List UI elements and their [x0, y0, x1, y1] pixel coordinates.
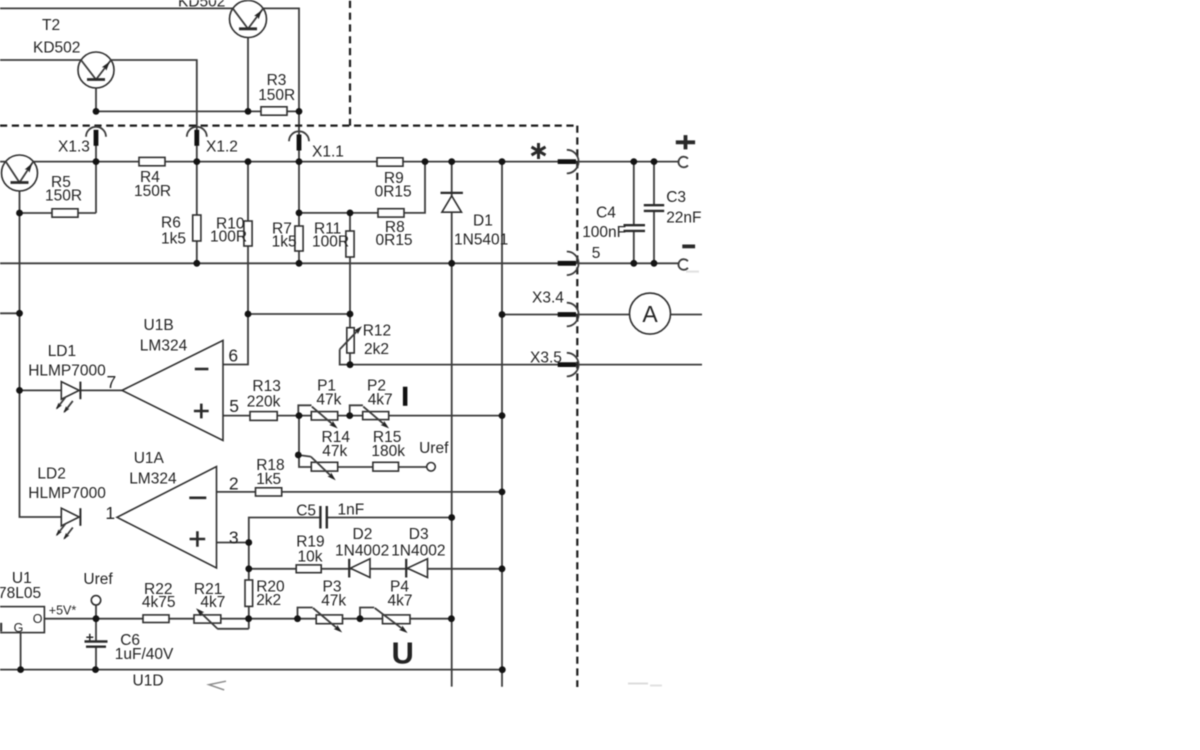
- svg-text:X3.5: X3.5: [530, 350, 562, 367]
- label LD2 value: [28, 485, 106, 502]
- wire X1.3 pin down through R5 riser: [95, 130, 97, 213]
- svg-text:4k7: 4k7: [368, 392, 393, 409]
- label R13: [252, 378, 280, 395]
- label X3.5: [530, 350, 562, 367]
- svg-text:D2: D2: [353, 526, 373, 543]
- label P2: [367, 378, 386, 395]
- wire Uref terminal drop: [95, 605, 97, 641]
- svg-text:1k5: 1k5: [161, 231, 186, 248]
- connector pin X1.3: [86, 127, 106, 146]
- resistor R3 150R: [261, 107, 287, 115]
- resistor R19 10k: [296, 565, 321, 573]
- dashed boundary vertical top: [349, 1, 351, 126]
- svg-text:78L05: 78L05: [0, 585, 41, 602]
- label R9 value: [375, 184, 412, 201]
- wire R20 branch and R21 wiper riser: [248, 569, 250, 629]
- wire ground bus bottom: [0, 669, 502, 671]
- wire C4 branch: [633, 162, 635, 264]
- svg-text:4k7: 4k7: [200, 594, 225, 611]
- svg-text:X3.4: X3.4: [532, 290, 564, 307]
- svg-text:5: 5: [592, 245, 601, 262]
- svg-text:1: 1: [105, 503, 115, 523]
- label P3: [323, 579, 342, 596]
- wire T3 collector from left edge and down to R3 right node: [0, 8, 299, 111]
- wire T2 emitter to X1.2 drop: [111, 60, 197, 162]
- resistor R5 150R: [52, 209, 78, 217]
- connector pin output 5: [558, 252, 579, 276]
- resistor R20 2k2: [245, 580, 253, 606]
- label R10 value: [210, 229, 247, 246]
- wire stub to left edge y313: [0, 312, 20, 314]
- label D3 value: [391, 543, 445, 560]
- op-amp U1B LM324: [122, 340, 223, 440]
- label R9: [384, 170, 404, 187]
- svg-text:Uref: Uref: [83, 571, 113, 588]
- label R21 value: [200, 594, 225, 611]
- label U1B value LM324: [140, 338, 188, 355]
- wire P4 wiper hook: [360, 608, 374, 619]
- label R11 value: [312, 234, 349, 251]
- label R22: [144, 581, 172, 598]
- svg-text:C4: C4: [596, 205, 616, 222]
- junction dot R12 bottom: [347, 361, 354, 368]
- label R5: [51, 174, 71, 191]
- wire R21 wiper tail: [217, 628, 249, 630]
- svg-text:LD2: LD2: [37, 466, 65, 483]
- wire P1 wiper hook: [298, 405, 311, 415]
- junction dots y416 row: [296, 412, 506, 419]
- label R7 value: [272, 234, 297, 251]
- label U1B: [144, 317, 174, 334]
- svg-text:47k: 47k: [316, 392, 341, 409]
- resistor R8 0R15: [378, 209, 404, 217]
- resistor R13 220k: [250, 412, 277, 421]
- svg-text:100R: 100R: [312, 234, 349, 251]
- capacitor C4 100nF: [624, 225, 646, 231]
- op-amp U1D apex fragment: [209, 681, 226, 690]
- svg-text:220k: 220k: [247, 393, 281, 410]
- label LD2: [37, 466, 65, 483]
- svg-text:KD502: KD502: [178, 0, 225, 10]
- label P3 value: [321, 592, 346, 609]
- trimmer R14 47k: [311, 457, 338, 483]
- label R6 value: [161, 231, 186, 248]
- label X1.3: [58, 139, 90, 156]
- wire C6 bottom lead: [95, 647, 97, 670]
- svg-text:R6: R6: [161, 215, 181, 232]
- label R15 value: [371, 443, 405, 460]
- diode D2 1N4002: [349, 559, 370, 578]
- wire LD1 to U1B output pin7: [20, 389, 123, 391]
- label R22 value: [142, 594, 176, 611]
- svg-text:4k7: 4k7: [388, 592, 413, 609]
- wire R14 R15 Uref row: [338, 466, 427, 468]
- capacitor C3 22nF: [644, 205, 664, 211]
- svg-text:4k75: 4k75: [142, 594, 176, 611]
- label R19 value: [298, 549, 323, 566]
- label R8 value: [376, 232, 413, 249]
- junction dots y569 row: [245, 565, 505, 572]
- label R6: [161, 215, 181, 232]
- wire C5 branch: [249, 518, 452, 569]
- label P1: [317, 378, 336, 395]
- label pin 7: [107, 372, 117, 392]
- LED LD1: [54, 382, 80, 415]
- wire bottom bus y263 from left edge to - terminal: [0, 262, 679, 264]
- svg-text:1N5401: 1N5401: [454, 232, 508, 249]
- wire output rail x502: [501, 162, 503, 687]
- label C5 value: [338, 501, 365, 518]
- label R3: [267, 72, 287, 89]
- svg-text:100R: 100R: [210, 229, 247, 246]
- junction dot LD1: [16, 387, 23, 394]
- svg-text:1k5: 1k5: [256, 471, 281, 488]
- wire U1A pin3 stub: [217, 542, 249, 544]
- resistor R15 180k: [373, 462, 399, 471]
- transistor T1 KD502: [2, 155, 38, 191]
- label U1: [12, 570, 32, 587]
- svg-text:1k5: 1k5: [272, 234, 297, 251]
- wire U1B pin5 R13 P1 P2 row: [223, 415, 502, 417]
- label R18 value: [256, 471, 281, 488]
- wire T2 collector from left edge: [0, 59, 81, 61]
- label D3: [409, 526, 429, 543]
- svg-text:150R: 150R: [45, 188, 82, 205]
- regulator U1 78L05 box: [0, 607, 44, 635]
- node faint artifacts: [628, 271, 699, 687]
- label R12 value: [364, 341, 389, 358]
- svg-text:U1D: U1D: [133, 673, 164, 690]
- svg-text:1nF: 1nF: [338, 501, 365, 518]
- label C3 value: [666, 209, 701, 226]
- label R5 value: [45, 188, 82, 205]
- label P4: [390, 579, 409, 596]
- resistor R10 100R: [244, 221, 252, 246]
- wire R14 wiper hook: [298, 455, 311, 457]
- svg-text:0R15: 0R15: [375, 184, 412, 201]
- op-amp U1A LM324: [117, 467, 217, 569]
- svg-text:47k: 47k: [321, 592, 346, 609]
- resistor R4 150R: [139, 157, 165, 165]
- connector pin X1.2: [187, 127, 207, 146]
- trimmer P4 4k7: [375, 608, 410, 635]
- label R12: [363, 323, 391, 340]
- label R10: [216, 216, 245, 233]
- label I bold: [403, 387, 408, 406]
- wire main bus y162 from left edge to + terminal: [0, 161, 679, 163]
- label D2 value: [335, 543, 389, 560]
- label C6 value: [115, 646, 174, 663]
- wire X3.5 line: [350, 364, 702, 366]
- wire P2 wiper hook: [350, 405, 363, 415]
- label R13 value: [247, 393, 281, 410]
- svg-text:D1: D1: [473, 213, 493, 230]
- label Uref right: [419, 440, 449, 457]
- svg-text:Uref: Uref: [419, 440, 449, 457]
- svg-text:LM324: LM324: [129, 470, 177, 487]
- wire R6 branch: [196, 162, 198, 264]
- label R3 value: [258, 87, 295, 104]
- junction dots base row: [93, 108, 303, 115]
- svg-text:U1A: U1A: [134, 450, 165, 467]
- resistor R22 4k75: [143, 615, 169, 623]
- svg-text:D3: D3: [409, 526, 429, 543]
- junction dots ground bus: [17, 666, 505, 673]
- ammeter A: [630, 293, 671, 334]
- label X1.1: [312, 144, 344, 161]
- resistor R18 1k5: [256, 488, 282, 496]
- diode D3 1N4002: [406, 559, 427, 578]
- resistor R9 0R15: [377, 158, 403, 166]
- label U bold: [392, 635, 414, 670]
- svg-text:HLMP7000: HLMP7000: [28, 485, 106, 502]
- label R20: [256, 579, 285, 596]
- svg-text:100nF: 100nF: [582, 224, 626, 241]
- wire T2 base to T3 base to R3: [96, 110, 299, 112]
- label pin 5: [229, 396, 239, 416]
- wire U1A pin2 R18 row: [217, 491, 503, 493]
- junction dots mid rows: [16, 210, 353, 217]
- wire U1 ground lead: [20, 633, 22, 670]
- label P4 value: [388, 592, 413, 609]
- svg-text:G: G: [14, 621, 24, 635]
- trimmer R12 2k2: [340, 324, 364, 353]
- wire X3.4 ammeter line: [502, 314, 702, 316]
- wire P3 wiper hook: [298, 608, 313, 619]
- label T2: [42, 17, 60, 34]
- svg-text:C5: C5: [296, 503, 316, 520]
- label C4 value: [582, 224, 626, 241]
- svg-text:1N4002: 1N4002: [335, 543, 389, 560]
- label R4 value: [134, 183, 171, 200]
- svg-text:2k2: 2k2: [364, 341, 389, 358]
- label T2 value KD502: [33, 40, 80, 57]
- svg-text:KD502: KD502: [33, 40, 80, 57]
- svg-text:1uF/40V: 1uF/40V: [115, 646, 174, 663]
- junction dots +5V bus: [93, 615, 455, 622]
- label X3.4: [532, 290, 564, 307]
- wire T1 base vertical rail down to LD2: [20, 183, 62, 518]
- trimmer R21 4k7: [194, 606, 221, 628]
- terminal Uref bottom: [91, 596, 100, 605]
- svg-text:U1B: U1B: [144, 317, 174, 334]
- svg-text:1N4002: 1N4002: [391, 543, 445, 560]
- label R15: [373, 429, 401, 446]
- label T3 value KD502 cropped: [178, 0, 225, 10]
- svg-text:2k2: 2k2: [256, 592, 281, 609]
- wire D1 C5 vertical rail: [451, 162, 453, 687]
- label U1A value LM324: [129, 470, 177, 487]
- connector pin X3.4: [558, 303, 579, 327]
- svg-text:X1.1: X1.1: [312, 144, 344, 161]
- label R14 value: [322, 443, 347, 460]
- label pin 3: [229, 528, 239, 548]
- label R18: [256, 457, 284, 474]
- label R7: [272, 221, 292, 238]
- label U1D: [133, 673, 164, 690]
- junction dots pin3 C5: [245, 489, 505, 546]
- label C6: [120, 632, 140, 649]
- minus symbol output: [682, 244, 695, 248]
- trimmer P3 47k: [313, 608, 344, 635]
- resistor R6 1k5: [193, 215, 201, 241]
- capacitor C6 1uF/40V: [85, 634, 108, 647]
- label P2 value: [368, 392, 393, 409]
- label X1.2: [206, 139, 238, 156]
- label R21: [194, 581, 222, 598]
- wire R19 D2 D3 row: [249, 568, 502, 570]
- svg-text:A: A: [642, 301, 658, 327]
- label U1 value 78L05: [0, 585, 41, 602]
- wire U1B pin6 node row: [248, 313, 350, 315]
- wire +5V bus: [44, 618, 451, 620]
- label pin 2: [229, 474, 239, 494]
- wire R10 branch down to U1B pin6: [223, 162, 248, 365]
- svg-text:47k: 47k: [322, 443, 347, 460]
- connector pin X3.5: [558, 353, 579, 377]
- label R11: [314, 221, 341, 238]
- svg-text:10k: 10k: [298, 549, 323, 566]
- label U1A: [134, 450, 165, 467]
- svg-text:180k: 180k: [371, 443, 405, 460]
- svg-text:3: 3: [229, 528, 239, 548]
- junction dots bus y263: [193, 260, 657, 267]
- label C5: [296, 503, 316, 520]
- resistor R7 1k5: [295, 226, 303, 251]
- svg-text:7: 7: [107, 372, 117, 392]
- junction dots y314 row: [16, 310, 505, 318]
- terminal - output: [678, 259, 687, 270]
- label C3: [666, 189, 686, 206]
- label D1 value: [454, 232, 508, 249]
- resistor R11 100R: [346, 231, 354, 257]
- svg-text:150R: 150R: [258, 87, 295, 104]
- wire T3 base lead: [247, 38, 249, 112]
- label LD1: [48, 343, 76, 360]
- svg-text:O: O: [33, 612, 43, 626]
- label Uref bottom: [83, 571, 113, 588]
- label D2: [353, 526, 373, 543]
- svg-text:+5V*: +5V*: [49, 604, 77, 618]
- label R4: [140, 169, 160, 186]
- terminal Uref right: [427, 463, 436, 472]
- label P1 value: [316, 392, 341, 409]
- connector pin star output: [558, 150, 579, 174]
- trimmer P2 4k7: [363, 407, 391, 431]
- svg-text:6: 6: [228, 346, 238, 366]
- dashed boundary vertical right: [576, 126, 578, 687]
- svg-text:T2: T2: [42, 17, 60, 34]
- svg-text:LD1: LD1: [48, 343, 76, 360]
- label pin 1: [105, 503, 115, 523]
- trimmer P1 47k: [311, 407, 339, 431]
- label R20 value: [256, 592, 281, 609]
- wire R12 wiper tail: [340, 349, 350, 364]
- capacitor C5 1nF: [320, 506, 326, 529]
- label D1: [473, 213, 493, 230]
- dashed boundary horizontal: [0, 124, 577, 126]
- label R14: [322, 429, 351, 446]
- LED LD2: [54, 508, 80, 541]
- svg-text:R12: R12: [363, 323, 391, 340]
- plus symbol output: [676, 135, 695, 149]
- label LD1 value: [28, 363, 106, 380]
- label pin 5 output: [592, 245, 601, 262]
- junction dots bus y162: [93, 158, 658, 165]
- asterisk node mark: [532, 143, 546, 159]
- wire X1.1 through R7 to bottom bus: [298, 111, 300, 263]
- label R8: [385, 219, 405, 236]
- label C4: [596, 205, 616, 222]
- svg-text:U: U: [392, 635, 414, 670]
- svg-text:LM324: LM324: [140, 338, 188, 355]
- wire T2 base lead: [95, 80, 97, 112]
- svg-text:X1.2: X1.2: [206, 139, 238, 156]
- label pin 6: [228, 346, 238, 366]
- svg-text:2: 2: [229, 474, 239, 494]
- label R19: [296, 534, 324, 551]
- svg-text:0R15: 0R15: [376, 232, 413, 249]
- label +5V net: [49, 604, 77, 618]
- svg-text:22nF: 22nF: [666, 209, 701, 226]
- wire R8 row up to bus: [299, 162, 425, 213]
- svg-text:HLMP7000: HLMP7000: [28, 363, 106, 380]
- transistor T3 KD502: [230, 1, 267, 38]
- transistor T2 KD502: [78, 52, 114, 88]
- wire R11 R12 branch: [349, 213, 351, 365]
- terminal + output: [678, 157, 687, 168]
- svg-text:150R: 150R: [134, 183, 171, 200]
- svg-text:5: 5: [229, 396, 239, 416]
- wire C3 branch: [653, 162, 655, 264]
- wire R13 node down to R14 row: [299, 416, 311, 467]
- wire R5 row: [20, 212, 97, 214]
- connector pin X1.1: [289, 131, 309, 150]
- svg-text:X1.3: X1.3: [58, 139, 90, 156]
- svg-text:C3: C3: [666, 189, 686, 206]
- diode D1 1N5401: [441, 193, 463, 212]
- junction dot R14 hook: [295, 452, 302, 459]
